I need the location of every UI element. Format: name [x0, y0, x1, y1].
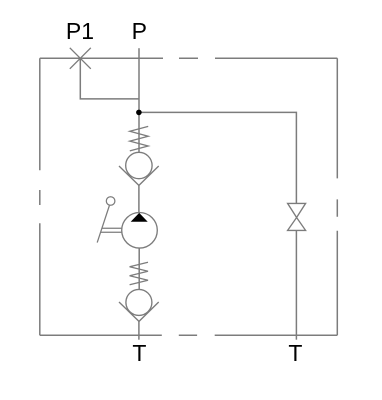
spring S1 (above check valve CV1)	[130, 126, 148, 150]
hand lever arm	[97, 206, 109, 243]
wire: CV2 to port T stub	[138, 321, 140, 339]
label T (right)	[288, 340, 302, 366]
check valve CV2 seat (V)	[119, 302, 159, 321]
wire: valve V1 to right port T stub	[295, 230, 297, 339]
check valve CV2 ball	[126, 289, 152, 315]
hand lever knob	[106, 197, 115, 206]
enclosure boundary, right side	[336, 58, 338, 335]
wire: port P stub and line down through spring to check valve CV1	[138, 48, 140, 152]
enclosure boundary (dashed box), top side	[40, 57, 338, 59]
svg-text:T: T	[288, 340, 302, 366]
hand pump flow triangle (filled, pointing up)	[131, 213, 148, 222]
svg-text:T: T	[132, 340, 146, 366]
shut-off valve V1, lower triangle	[288, 218, 306, 231]
svg-text:P1: P1	[66, 18, 94, 44]
enclosure boundary, left side	[39, 58, 41, 335]
check valve CV1 seat (V)	[119, 166, 159, 185]
wire: branch from node to relief valve branch (right)	[139, 112, 297, 203]
plugged port P1 (X symbol)	[70, 48, 91, 69]
hand lever linkage bars	[101, 228, 122, 232]
check valve CV1 ball	[126, 152, 152, 178]
label P	[132, 18, 147, 44]
wire: pump down through spring S2 to check valve CV2	[138, 248, 140, 290]
hand pump U1 body (circle)	[122, 213, 158, 249]
enclosure boundary, bottom side	[40, 334, 338, 336]
wire: CV1 to hand pump	[138, 185, 140, 212]
shut-off valve V1, upper triangle	[288, 203, 306, 217]
wire: jog from P1 plug down and right to P line	[80, 58, 139, 99]
svg-text:P: P	[132, 18, 147, 44]
spring S2 (above check valve CV2)	[130, 262, 148, 285]
label P1	[66, 18, 94, 44]
node: junction dot	[136, 110, 142, 116]
label T (left)	[132, 340, 146, 366]
